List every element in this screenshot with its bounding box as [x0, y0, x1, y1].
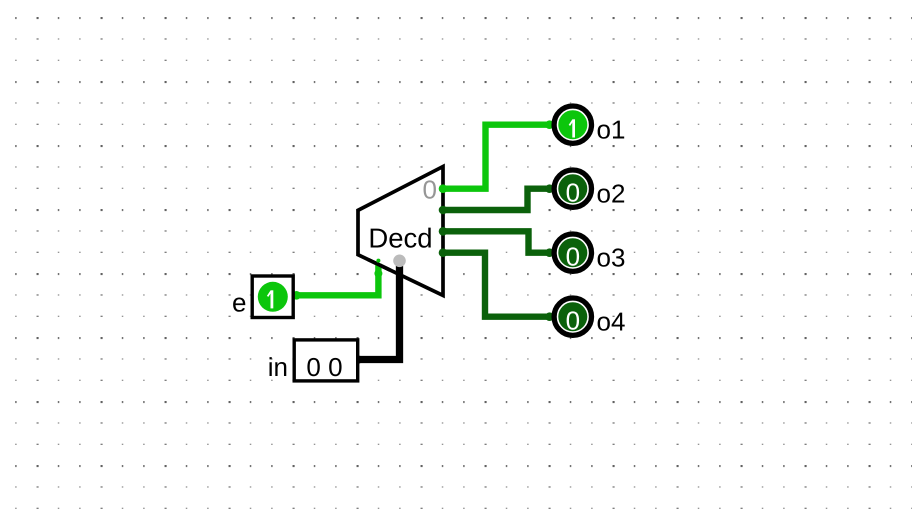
svg-text:o3: o3 [597, 243, 626, 273]
svg-text:0: 0 [423, 175, 437, 205]
svg-text:o1: o1 [597, 115, 626, 145]
svg-text:e: e [232, 288, 246, 318]
svg-text:0 0: 0 0 [306, 352, 342, 382]
svg-text:o4: o4 [597, 307, 626, 337]
svg-text:0: 0 [566, 242, 580, 272]
svg-text:in: in [268, 352, 288, 382]
svg-text:o2: o2 [597, 179, 626, 209]
svg-text:0: 0 [566, 178, 580, 208]
svg-text:Decd: Decd [368, 223, 432, 254]
svg-text:0: 0 [566, 306, 580, 336]
